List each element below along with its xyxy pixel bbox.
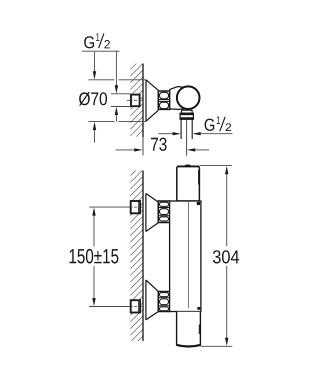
dimension 73: right arrow (outside, pointing left at pipe centerline) — [187, 148, 195, 151]
wall surface line (top view) — [142, 64, 144, 138]
thermostat main body — [170, 201, 201, 312]
wall (bottom view) hatched band — [130, 171, 142, 342]
dash-dot centerline through lower supply nut — [127, 306, 143, 308]
label G 1/2 (pipe): text — [205, 119, 215, 131]
dimension 73: left arrow (outside, pointing right at wall surface) — [116, 149, 135, 151]
round union body (circle) — [177, 86, 200, 109]
dimension Ø70: bottom arrow — [94, 129, 96, 143]
label G 1/2 (pipe): right arrow and underline — [192, 132, 200, 135]
wall surface extension line down to 73-dim — [142, 137, 144, 155]
label G 1/2 (top): up arrow to thread bottom — [115, 114, 117, 122]
dimension 304: extension lines — [199, 165, 232, 167]
stop screw upper — [197, 202, 200, 205]
dimension Ø70: top arrow — [94, 52, 96, 73]
down pipe (G 1/2 outlet) — [180, 119, 182, 139]
lock nut under collar — [180, 113, 193, 119]
label G 1/2 (top): text — [84, 36, 94, 48]
lower escutcheon cone: outline — [146, 280, 158, 320]
upper escutcheon cone: outline — [146, 194, 158, 232]
thermostat bottom cap — [177, 312, 201, 347]
pipe centerline extension down to 73-dim — [186, 120, 188, 156]
dimension 304: dim line with arrows — [226, 174, 228, 246]
main body inner line — [188, 202, 190, 308]
dimension Ø70: extension lines — [89, 79, 115, 81]
dimension 150±15: value text — [70, 249, 119, 264]
wall surface line (bottom view) — [142, 171, 144, 342]
lower escutcheon cone: big end line — [145, 280, 147, 320]
bottom cap clip line — [198, 325, 200, 335]
escutcheon cone (top view): big end line — [145, 80, 147, 121]
in-wall supply nut (top view) — [131, 95, 140, 107]
lower union nut — [158, 292, 169, 312]
top cap button bump — [184, 165, 191, 167]
dimension 150±15: extension lines — [89, 206, 130, 208]
upper escutcheon cone: big end line — [145, 194, 147, 232]
stop screw lower — [197, 307, 200, 310]
lower in-wall supply nut — [131, 300, 140, 312]
label G 1/2 (pipe): left arrow — [159, 133, 174, 135]
dimension 150±15: dim line with arrows — [93, 215, 95, 246]
dash-dot centerline through upper supply nut — [127, 206, 143, 208]
adapter between nut and round body — [170, 87, 185, 110]
wall (top view) hatched band — [130, 64, 142, 137]
upper in-wall supply nut — [131, 201, 140, 213]
dash-dot centerline through supply nut (top view) — [127, 99, 143, 101]
hex nut (top view) — [158, 91, 170, 109]
dimension Ø70: value text — [79, 92, 107, 106]
upper union nut — [158, 201, 169, 223]
label G 1/2 (top): underline — [82, 50, 120, 52]
label G 1/2 (top): leader stem with down arrow to thread top — [115, 51, 117, 85]
dimension 304: value text — [213, 250, 239, 263]
escutcheon cone (top view): outline — [146, 80, 158, 121]
thread extension lines (G 1/2 top) — [111, 93, 131, 95]
dimension 73: value text — [151, 138, 167, 151]
collar ring under circle — [182, 110, 193, 113]
thermostat top cap — [177, 166, 200, 201]
